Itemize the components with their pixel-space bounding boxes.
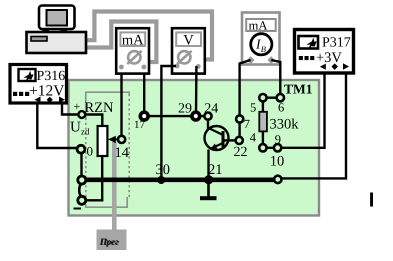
svg-text:B: B: [261, 44, 266, 54]
wire: node 7 to node 22: [238, 119, 240, 140]
loop arc to lower terminal: [79, 184, 82, 197]
svg-text:14: 14: [115, 145, 130, 161]
svg-text:5: 5: [250, 100, 256, 114]
emitter wire down to bus: [207, 150, 209, 181]
svg-text:7: 7: [244, 117, 250, 131]
wire: node 5 to resistor 330k: [262, 101, 264, 112]
node 29: [192, 112, 200, 120]
collector diagonal: [208, 128, 224, 136]
wire: node 0 down to bus terminal: [80, 153, 82, 177]
power supply P317: [295, 30, 354, 74]
svg-text:330k: 330k: [270, 117, 300, 133]
node 14: [118, 136, 125, 143]
node 24: [204, 113, 211, 120]
milliammeter mA (left meter): [116, 28, 149, 73]
wire: node 5 to node 6: [263, 96, 280, 98]
bus wire (ground rail): [84, 178, 276, 183]
svg-text:TM1: TM1: [284, 82, 313, 97]
transistor Q1: [205, 120, 237, 180]
wire: resistor bottom to node 4: [262, 131, 264, 144]
computer monitor: [39, 6, 75, 32]
wire: P316 right terminal to RZN + input: [62, 102, 78, 115]
svg-text:4: 4: [250, 130, 257, 144]
potentiometer RZN: [98, 126, 108, 156]
wire gray: computer to mA meter: [85, 22, 156, 63]
node 22: [236, 137, 243, 144]
junction node 21: [204, 175, 213, 184]
svg-text:29: 29: [178, 102, 192, 117]
svg-text:Прег: Прег: [99, 236, 119, 246]
wire: node 17 to node 24: [144, 115, 208, 117]
node 6: [277, 94, 284, 101]
terminals: [35, 97, 41, 103]
emitter diagonal with arrow: [211, 143, 223, 149]
node 0: [77, 145, 85, 153]
node RZN + input: [78, 111, 85, 118]
junction node 30: [157, 176, 165, 184]
svg-text:9: 9: [275, 133, 281, 147]
svg-text:22: 22: [234, 145, 248, 160]
knob: [177, 51, 191, 64]
svg-text:P317: P317: [322, 35, 351, 50]
svg-text:U: U: [70, 120, 81, 136]
base wire to node 22: [225, 139, 237, 141]
resistor 330k: [259, 112, 267, 132]
wire: RZN + node to potentiometer top: [86, 115, 103, 127]
node 17: [140, 112, 148, 120]
svg-text:mA: mA: [249, 19, 268, 33]
power supply P316: [10, 65, 67, 104]
wiper arrow node 14: [115, 138, 122, 140]
svg-text:mA: mA: [122, 32, 144, 48]
wire: mA right terminal down to node 17: [143, 74, 145, 117]
wire: IB meter right terminal to node 6: [271, 60, 280, 94]
svg-text:24: 24: [204, 102, 218, 117]
wire gray: latr lead: [112, 142, 117, 231]
wire: P316 left terminal to node 0: [37, 102, 76, 148]
node 7: [236, 115, 243, 122]
ground: [207, 180, 210, 197]
bus left terminal circle: [78, 176, 86, 184]
wire gray: computer to V meter: [85, 12, 212, 60]
RZN dashed box: [85, 92, 129, 207]
latr box: [97, 230, 127, 251]
svg-text:17: 17: [134, 119, 146, 131]
svg-text:10: 10: [270, 153, 285, 169]
svg-text:6: 6: [278, 100, 284, 114]
node 9: [274, 144, 281, 151]
wire: V left terminal to bus node 30: [161, 66, 176, 177]
base bar: [222, 131, 225, 147]
lower terminal circle: [78, 196, 86, 204]
wire: P317 right terminal to node 10: [282, 73, 346, 178]
node 5: [259, 94, 266, 101]
voltmeter V: [172, 28, 205, 73]
svg-text:RZN: RZN: [85, 100, 115, 116]
breadboard panel (green): [69, 80, 320, 216]
node 10: [274, 176, 281, 183]
computer system unit: [27, 32, 87, 53]
base current meter mA IB: [242, 13, 280, 65]
wire: node 4 to P317 left terminal: [263, 73, 325, 148]
svg-text:zd: zd: [81, 127, 90, 137]
svg-text:+: +: [74, 100, 81, 114]
svg-text:0: 0: [87, 144, 94, 159]
wire: mA left terminal down to node 14: [120, 74, 122, 136]
I bar mark: [370, 193, 373, 207]
minus label: [74, 208, 82, 210]
wire: V right terminal down to node 29: [195, 66, 198, 116]
node 4 circle: [259, 144, 266, 151]
wire: potentiometer bottom through bus to lower loop: [86, 156, 102, 200]
svg-text:V: V: [183, 32, 194, 48]
wire: IB meter left terminal to node 7: [240, 60, 251, 119]
svg-text:+3V: +3V: [316, 50, 342, 66]
knob: [127, 51, 141, 64]
terminals: [320, 64, 326, 70]
svg-text:30: 30: [156, 162, 171, 178]
terminals: [247, 56, 255, 64]
collector wire from node 24: [207, 120, 209, 129]
